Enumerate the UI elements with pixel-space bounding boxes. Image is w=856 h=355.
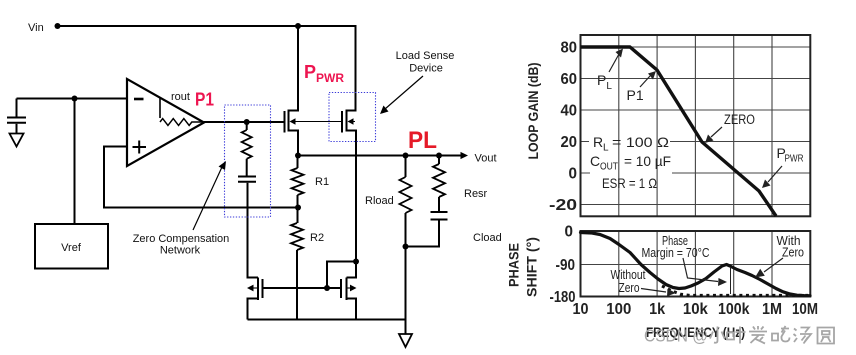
wire comp resistor to comp cap <box>246 159 248 176</box>
node Vin terminal <box>55 23 61 29</box>
wire error-amp minus input <box>17 98 128 100</box>
box zero compensation dashed <box>225 105 271 217</box>
capacitor Cload <box>431 212 448 220</box>
svg-text:Network: Network <box>160 245 201 257</box>
watermark CSDN <box>644 326 708 346</box>
wire mirror gate line <box>263 287 342 289</box>
svg-text:0: 0 <box>565 224 574 241</box>
wire input cap lead <box>16 99 18 117</box>
svg-text:10k: 10k <box>683 301 708 318</box>
svg-text:PWR: PWR <box>785 154 804 165</box>
svg-text:Zero: Zero <box>782 245 804 260</box>
svg-text:Vin: Vin <box>28 22 44 34</box>
label PPWR gain <box>777 145 804 165</box>
wire label arrow zero comp <box>193 161 226 230</box>
svg-text:P1: P1 <box>195 89 214 110</box>
label Phase Margin <box>642 233 710 260</box>
resistor Resr <box>433 164 445 197</box>
resistor comp R <box>242 130 252 159</box>
wire load-sense drain down to mirror <box>347 131 357 278</box>
wire R1 bottom lead to feedback node <box>297 195 299 223</box>
wire op-amp output to PMOS gate <box>204 121 285 123</box>
svg-text:100k: 100k <box>718 301 750 318</box>
wire right NMOS source <box>347 299 357 320</box>
svg-text:Zero Compensation: Zero Compensation <box>133 233 230 245</box>
svg-text:60: 60 <box>561 71 578 88</box>
svg-text:R1: R1 <box>315 176 329 188</box>
watermark CJK glyphs <box>710 326 834 344</box>
svg-text:OUT: OUT <box>600 162 618 173</box>
label RL value <box>593 134 669 154</box>
svg-text:Zero: Zero <box>619 280 640 295</box>
wire diode-connect tie <box>327 262 356 289</box>
svg-text:C: C <box>590 153 600 169</box>
curve phase without zero dotted <box>662 286 808 295</box>
transistor Q4 mirror NMOS right <box>341 278 347 301</box>
wire Rload top lead <box>405 156 407 178</box>
chart phase frame <box>581 231 811 297</box>
wire Vin rail to load-sense source <box>58 26 356 111</box>
svg-text:ZERO: ZERO <box>724 112 755 127</box>
svg-text:L: L <box>603 143 609 154</box>
svg-text:P1: P1 <box>627 87 644 103</box>
svg-text:Vref: Vref <box>61 242 82 254</box>
label y axis gain <box>549 40 577 215</box>
svg-text:-90: -90 <box>556 257 576 274</box>
svg-text:SHIFT (°): SHIFT (°) <box>525 237 540 297</box>
wire Resr top lead <box>438 156 440 165</box>
wire feedback plus input <box>104 147 298 208</box>
svg-text:PL: PL <box>408 127 437 154</box>
node power PMOS source tap <box>295 23 301 29</box>
label With Zero <box>777 233 805 260</box>
wire label arrow load sense <box>380 76 423 114</box>
ground input <box>10 134 24 147</box>
box load sense dashed <box>329 93 376 142</box>
wire power PMOS source to Vin rail <box>289 26 299 111</box>
node Vout at PMOS drain <box>295 153 301 159</box>
wire power PMOS drain to Vout node <box>289 131 299 156</box>
node comp network tap <box>244 119 250 125</box>
svg-text:-20: -20 <box>549 197 577 214</box>
svg-text:R: R <box>593 134 603 150</box>
transistor Q3 mirror NMOS left <box>258 278 263 301</box>
label Load Sense Device <box>396 50 455 75</box>
wire R2 bottom lead <box>296 250 298 320</box>
svg-text:= 100 Ω: = 100 Ω <box>612 134 669 150</box>
label COUT value <box>590 153 671 173</box>
chart loop gain frame <box>581 35 811 216</box>
label y axis phase <box>550 224 576 307</box>
wire comp cap down to mirror drain <box>248 183 259 278</box>
svg-text:Margin = 70°C: Margin = 70°C <box>642 245 710 260</box>
wire Vout arrowhead <box>461 152 469 159</box>
svg-text:Device: Device <box>409 63 443 75</box>
svg-text:LOOP GAIN (dB): LOOP GAIN (dB) <box>526 63 541 160</box>
node mirror drain tie <box>353 259 359 265</box>
ground output <box>399 334 412 347</box>
svg-text:20: 20 <box>561 134 578 151</box>
svg-text:10M: 10M <box>792 301 818 318</box>
svg-text:1M: 1M <box>762 301 782 318</box>
curve phase with zero <box>581 233 811 296</box>
node Rload bottom <box>403 244 409 250</box>
curve loop gain <box>581 47 777 216</box>
svg-text:PHASE: PHASE <box>507 243 522 287</box>
svg-text:R2: R2 <box>310 232 324 244</box>
svg-text:rout: rout <box>171 91 190 103</box>
wire input cap to ground <box>16 124 18 134</box>
svg-text:40: 40 <box>561 103 578 120</box>
label PL gain <box>597 72 612 92</box>
wire phase margin marker <box>730 267 732 294</box>
node mirror gate <box>324 285 330 291</box>
svg-text:Cload: Cload <box>473 232 502 244</box>
svg-text:Rload: Rload <box>365 195 394 207</box>
svg-text:Load Sense: Load Sense <box>396 50 455 62</box>
node feedback divider <box>295 205 301 211</box>
svg-text:Vout: Vout <box>475 153 497 165</box>
wire left NMOS source to ground rail <box>248 299 259 320</box>
wire output ground stem <box>405 247 407 335</box>
svg-text:100: 100 <box>606 301 631 318</box>
wire Resr to Cload <box>438 197 440 211</box>
box Vref <box>35 224 108 269</box>
wire Vout line <box>298 155 461 157</box>
node Resr top <box>436 153 442 159</box>
node minus input / Vref <box>72 96 78 102</box>
wire ground rail <box>248 319 406 321</box>
svg-text:0: 0 <box>569 166 578 183</box>
capacitor comp C <box>238 177 256 182</box>
svg-text:Resr: Resr <box>464 188 488 200</box>
wire compensation node lead <box>246 122 248 130</box>
resistor Rload <box>400 177 412 213</box>
transistor Q2 load sense PMOS <box>342 110 347 133</box>
wire Vref to minus input node <box>74 99 76 225</box>
svg-text:10: 10 <box>573 301 589 318</box>
wire Rload bottom lead <box>405 213 407 247</box>
transistor Q1 power PMOS <box>285 110 289 133</box>
svg-text:ESR = 1 Ω: ESR = 1 Ω <box>602 175 657 191</box>
node Rload top <box>403 153 409 159</box>
svg-text:1k: 1k <box>649 301 665 318</box>
svg-text:= 10 µF: = 10 µF <box>624 153 671 169</box>
svg-text:CSDN @: CSDN @ <box>644 326 708 346</box>
capacitor input cap <box>7 118 26 123</box>
label Without Zero <box>611 267 646 295</box>
op-amp U1 <box>127 79 204 166</box>
label x axis frequency ticks <box>573 301 819 318</box>
resistor R2 <box>291 223 303 250</box>
label Zero Compensation Network <box>133 233 230 257</box>
svg-text:80: 80 <box>561 40 578 57</box>
wire Cload bottom to Rload bottom <box>406 221 440 247</box>
wire R1 top lead <box>297 156 299 169</box>
resistor R1 <box>292 168 304 195</box>
